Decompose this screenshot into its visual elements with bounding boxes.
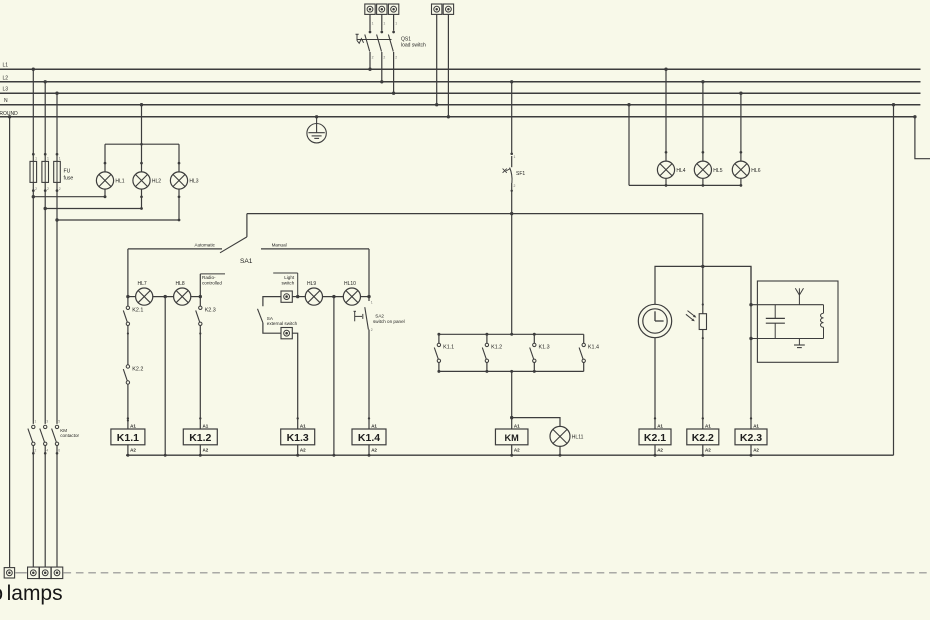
wire PE right exit xyxy=(915,117,930,159)
svg-text:FU: FU xyxy=(64,169,71,175)
junction HL5 top xyxy=(701,80,704,83)
junction N rail xyxy=(126,454,129,457)
lamp HL6 xyxy=(732,93,760,185)
selector switch SA1 xyxy=(220,214,253,265)
wire Manual drop xyxy=(368,249,370,301)
svg-text:A1: A1 xyxy=(657,423,663,428)
svg-text:switch: switch xyxy=(282,281,295,286)
junction SA2 top xyxy=(367,295,370,298)
svg-text:controlled: controlled xyxy=(202,281,222,286)
junction HL5 bottom xyxy=(702,184,705,187)
wire K2 rail to photoresistor xyxy=(702,266,704,313)
wire coil A2 stub xyxy=(702,445,704,455)
label Radio-controlled xyxy=(200,274,225,297)
junction light switch node xyxy=(296,295,299,298)
svg-text:1: 1 xyxy=(35,157,37,161)
contactor KM poles xyxy=(28,419,80,567)
wire clock to K2.1 xyxy=(654,338,656,429)
wire SA to button2 xyxy=(263,323,281,333)
wire N drop right group xyxy=(628,105,630,186)
svg-text:Manual: Manual xyxy=(272,243,287,248)
junction SF1 control rail xyxy=(510,212,513,215)
svg-text:SA1: SA1 xyxy=(240,258,253,265)
timer clock KT xyxy=(638,304,671,337)
svg-text:Light: Light xyxy=(284,275,295,280)
svg-text:L2: L2 xyxy=(3,75,9,81)
wire Manual rail xyxy=(261,248,369,250)
svg-text:A2: A2 xyxy=(753,447,759,452)
wire HL1 return xyxy=(33,196,105,198)
svg-text:HL4: HL4 xyxy=(676,168,685,174)
svg-text:HL10: HL10 xyxy=(344,281,356,287)
svg-text:K1.2: K1.2 xyxy=(491,345,502,351)
wire SA2 to K1.4 xyxy=(368,330,370,430)
relay coil K1.4 xyxy=(368,417,370,419)
junction N rail xyxy=(654,454,657,457)
svg-text:2: 2 xyxy=(395,56,397,60)
svg-text:K1.1: K1.1 xyxy=(443,345,454,351)
svg-text:5: 5 xyxy=(58,419,60,423)
photoresistor R xyxy=(686,311,707,330)
junction N rail xyxy=(332,454,335,457)
terminal X1:N xyxy=(432,4,442,14)
wire PE terminal xyxy=(447,14,449,116)
svg-text:K2.3: K2.3 xyxy=(740,432,762,444)
lamp HL7 xyxy=(128,281,153,305)
push button light switch 1 xyxy=(281,291,292,302)
svg-text:L1: L1 xyxy=(3,63,9,69)
svg-text:2: 2 xyxy=(35,187,37,191)
wire HL7 to HL8 xyxy=(152,296,174,298)
svg-text:K2.3: K2.3 xyxy=(205,308,216,314)
lamp HL4 xyxy=(657,69,685,185)
svg-text:HL6: HL6 xyxy=(751,168,760,174)
panel boundary dashed line xyxy=(64,572,930,574)
terminal X1:3 xyxy=(388,4,398,14)
junction node C xyxy=(199,295,202,298)
svg-text:K2.1: K2.1 xyxy=(644,432,666,444)
lamp HL10 xyxy=(343,281,360,305)
svg-text:o: o xyxy=(0,582,3,605)
wire control rail xyxy=(247,213,703,215)
lamp HL5 xyxy=(694,82,722,186)
terminal X2:PE xyxy=(4,568,14,578)
svg-text:load switch: load switch xyxy=(401,43,426,49)
svg-text:contactor: contactor xyxy=(60,433,79,438)
terminal X2:3 xyxy=(51,567,63,579)
wire N right drop xyxy=(893,105,895,456)
svg-text:2: 2 xyxy=(47,187,49,191)
svg-text:external switch: external switch xyxy=(267,321,298,326)
junction radio bottom xyxy=(749,337,752,340)
wire L2 feeder xyxy=(44,82,46,209)
label Light switch xyxy=(273,273,298,297)
svg-text:QS1: QS1 xyxy=(401,36,411,42)
junction K2 rail feed xyxy=(701,265,704,268)
wire N drop to HL group xyxy=(141,105,143,145)
svg-text:K2.2: K2.2 xyxy=(132,366,143,372)
junction N rail xyxy=(368,454,371,457)
breaker SF1 xyxy=(503,153,526,193)
fuse FU1 xyxy=(30,153,37,192)
junction N rail xyxy=(296,454,299,457)
junction N rail xyxy=(199,454,202,457)
wire coil A2 stub xyxy=(654,445,656,455)
contact K2.1 xyxy=(123,297,143,365)
wire bottom N rail xyxy=(126,454,894,456)
svg-text:A2: A2 xyxy=(657,447,663,452)
svg-text:HL7: HL7 xyxy=(138,281,147,287)
push button light switch 2 xyxy=(281,328,292,339)
junction QS1-L1 xyxy=(368,68,371,71)
wire mid drop to N rail 2 xyxy=(333,297,335,456)
switch SA external xyxy=(258,309,298,326)
wire HL11 to N rail xyxy=(559,446,561,455)
aux contact K1.4 xyxy=(579,334,599,371)
wire HL10 right xyxy=(360,296,369,298)
svg-text:A2: A2 xyxy=(371,447,377,452)
svg-text:A1: A1 xyxy=(514,423,520,428)
radio ground xyxy=(794,339,805,348)
wire coil A2 stub xyxy=(750,445,752,455)
wire radio internal top xyxy=(751,304,824,306)
wire button2 to K1.3 xyxy=(292,333,297,429)
wire radio internal bottom xyxy=(751,338,824,340)
svg-text:KM: KM xyxy=(505,433,520,443)
relay coil K2.2 xyxy=(702,417,704,419)
relay coil K1.1 xyxy=(127,417,129,419)
relay coil K1.2 xyxy=(199,417,201,419)
junction QS1-L3 xyxy=(392,92,395,95)
lamp HL2 xyxy=(133,144,161,208)
svg-text:K1.3: K1.3 xyxy=(539,345,550,351)
junction earth-GROUND xyxy=(315,115,318,118)
aux contact K1.3 xyxy=(530,334,550,371)
junction node A xyxy=(126,295,129,298)
wire fuse3 to KM xyxy=(56,220,58,424)
wire coil A2 stub xyxy=(199,445,201,455)
svg-text:A1: A1 xyxy=(705,423,711,428)
relay coil K1.3 xyxy=(297,417,299,419)
svg-text:1: 1 xyxy=(59,157,61,161)
junction HL4 top xyxy=(664,68,667,71)
wire Automatic drop xyxy=(127,249,129,297)
svg-text:2: 2 xyxy=(383,56,385,60)
wire K2 rail to radio xyxy=(750,266,752,429)
svg-text:1: 1 xyxy=(47,157,49,161)
svg-text:HL2: HL2 xyxy=(152,179,161,185)
junction N rail xyxy=(750,454,753,457)
svg-text:2: 2 xyxy=(59,187,61,191)
fuse FU3 xyxy=(54,153,61,192)
junction N rail xyxy=(559,454,562,457)
wire K2 top rail xyxy=(655,266,751,304)
svg-text:6: 6 xyxy=(58,449,60,453)
load switch QS1 xyxy=(356,14,426,93)
svg-text:Automatic: Automatic xyxy=(195,243,216,248)
wire coil A2 stub xyxy=(511,445,513,455)
wire control rail to K2 rail xyxy=(702,214,704,267)
wire L2 to SF1 xyxy=(511,82,513,154)
svg-text:switch on panel: switch on panel xyxy=(373,319,405,324)
contact K2.2 xyxy=(123,365,143,429)
push button SA2 xyxy=(354,300,405,332)
lamp HL8 xyxy=(174,281,191,305)
svg-text:3: 3 xyxy=(46,419,48,423)
svg-text:1: 1 xyxy=(35,419,37,423)
svg-text:SF1: SF1 xyxy=(516,171,525,177)
relay coil K2.1 xyxy=(654,417,656,419)
wire L3 feeder xyxy=(56,93,58,220)
junction HL4 bottom xyxy=(665,184,668,187)
lamp HL1 xyxy=(96,144,124,198)
junction KM-HL11 branch xyxy=(510,416,513,419)
wire HL8 to node C xyxy=(190,296,200,298)
svg-text:K2.1: K2.1 xyxy=(132,308,143,314)
wire branch to HL11 xyxy=(512,418,560,427)
wire photoresistor to K2.2 xyxy=(702,330,704,430)
svg-text:K1.2: K1.2 xyxy=(189,432,211,444)
radio receiver box xyxy=(757,281,838,362)
wire L1 feeder xyxy=(32,69,34,197)
junction HL6 top xyxy=(739,92,742,95)
wire HL1-3 top rail xyxy=(105,143,179,145)
contactor coil KM xyxy=(511,417,513,419)
wire coil A2 stub xyxy=(127,445,129,455)
junction QS1-L2 xyxy=(380,80,383,83)
svg-text:N: N xyxy=(4,98,8,104)
terminal X2:1 xyxy=(28,567,40,579)
svg-text:1: 1 xyxy=(514,155,516,159)
junction radio top xyxy=(749,303,752,306)
svg-text:A1: A1 xyxy=(753,423,759,428)
bus N xyxy=(0,104,920,106)
svg-text:A2: A2 xyxy=(705,447,711,452)
svg-text:L3: L3 xyxy=(3,87,9,93)
wire button1 left xyxy=(263,297,281,307)
svg-text:1: 1 xyxy=(371,300,373,304)
terminal X1:PE xyxy=(443,4,453,14)
protective earth symbol xyxy=(307,117,326,143)
svg-text:A2: A2 xyxy=(300,447,306,452)
svg-text:A2: A2 xyxy=(203,447,209,452)
wire aux bottom rail xyxy=(439,370,584,372)
terminal X1:1 xyxy=(365,4,375,14)
terminal X1:2 xyxy=(377,4,387,14)
svg-text:A1: A1 xyxy=(203,423,209,428)
wire coil A2 stub xyxy=(368,445,370,455)
wire mid drop to N rail xyxy=(164,297,166,456)
svg-text:KM: KM xyxy=(60,428,67,433)
svg-text:K2.2: K2.2 xyxy=(692,432,714,444)
svg-text:2: 2 xyxy=(372,56,374,60)
antenna xyxy=(795,288,803,304)
svg-text:K1.3: K1.3 xyxy=(287,432,309,444)
wire aux to KM xyxy=(511,371,513,429)
panel boundary dash xyxy=(15,572,27,574)
bus L1 xyxy=(0,68,921,70)
svg-text:A2: A2 xyxy=(130,447,136,452)
wire fuse2 to KM xyxy=(44,209,46,424)
svg-text:K1.1: K1.1 xyxy=(117,432,139,444)
bus GROUND xyxy=(0,116,915,118)
aux contact K1.2 xyxy=(482,334,502,371)
fuse FU2 xyxy=(42,153,49,192)
svg-text:A2: A2 xyxy=(514,447,520,452)
junction aux K1.3 xyxy=(533,333,536,336)
junction aux feed bottom xyxy=(510,370,513,373)
svg-text:Radio-: Radio- xyxy=(202,275,216,280)
junction HL6 bottom xyxy=(740,184,743,187)
svg-text:SA2: SA2 xyxy=(375,314,384,319)
wire HL9 to HL10 xyxy=(322,296,344,298)
svg-text:4: 4 xyxy=(46,449,48,453)
wire N terminal xyxy=(436,14,438,104)
lamp HL3 xyxy=(170,144,198,220)
svg-text:lamps: lamps xyxy=(7,582,63,605)
aux contact K1.1 xyxy=(434,334,454,371)
bus L2 xyxy=(0,81,921,83)
junction N rail xyxy=(164,454,167,457)
svg-text:1: 1 xyxy=(372,22,374,26)
wire coil A2 stub xyxy=(297,445,299,455)
wire Automatic rail xyxy=(128,248,222,250)
wire HL2 return xyxy=(45,208,141,210)
svg-text:2: 2 xyxy=(514,184,516,188)
junction mid HL7-HL8 xyxy=(164,295,167,298)
bus L3 xyxy=(0,92,921,94)
relay coil K2.3 xyxy=(750,417,752,419)
svg-text:2: 2 xyxy=(35,449,37,453)
junction aux feed top xyxy=(510,333,513,336)
contact K2.3 xyxy=(196,297,216,429)
junction N rail xyxy=(701,454,704,457)
inductor L xyxy=(820,305,823,339)
svg-text:HL1: HL1 xyxy=(115,179,124,185)
capacitor C xyxy=(766,305,785,339)
wire fuse1 to KM xyxy=(32,197,34,424)
junction aux K1.2 xyxy=(485,333,488,336)
junction mid HL9-HL10 xyxy=(332,295,335,298)
svg-text:1: 1 xyxy=(383,22,385,26)
svg-text:HL9: HL9 xyxy=(307,281,316,287)
wire PE feeder xyxy=(9,117,11,568)
svg-text:fuse: fuse xyxy=(64,175,74,181)
terminal X2:2 xyxy=(39,567,51,579)
lamp HL11 xyxy=(550,426,584,446)
svg-text:A1: A1 xyxy=(371,423,377,428)
svg-text:HL3: HL3 xyxy=(189,179,198,185)
svg-text:A1: A1 xyxy=(130,423,136,428)
wire aux top rail xyxy=(439,333,584,335)
wire HL4-6 bottom rail xyxy=(629,184,741,186)
svg-text:HL8: HL8 xyxy=(176,281,185,287)
wire node to HL9 xyxy=(292,296,305,298)
junction N rail xyxy=(510,454,513,457)
svg-text:HL11: HL11 xyxy=(572,435,584,441)
svg-text:HL5: HL5 xyxy=(713,168,722,174)
lamp HL9 xyxy=(305,281,322,305)
svg-text:K1.4: K1.4 xyxy=(588,345,599,351)
svg-text:2: 2 xyxy=(371,328,373,332)
junction aux K1.1 xyxy=(437,333,440,336)
wire SF1 to control rail xyxy=(511,183,513,334)
wire HL3 return xyxy=(57,219,179,221)
svg-text:K1.4: K1.4 xyxy=(358,432,380,444)
svg-text:1: 1 xyxy=(395,22,397,26)
svg-text:A1: A1 xyxy=(300,423,306,428)
